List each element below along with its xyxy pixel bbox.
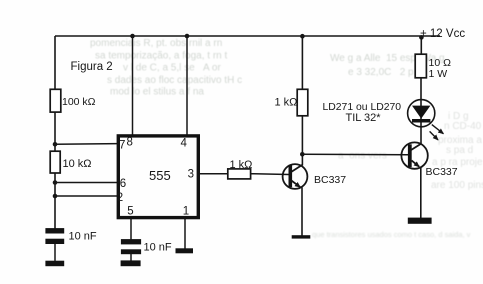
svg-text:are 100 pins: are 100 pins [431, 180, 483, 191]
LED emission arrow 2 [430, 131, 438, 140]
ground G5 Q2 emitter [408, 218, 432, 224]
svg-text:s dades ao floc capacitivo tH: s dades ao floc capacitivo tH c [107, 75, 242, 86]
svg-text:4: 4 [181, 138, 188, 150]
svg-text:10 nF: 10 nF [69, 230, 97, 242]
svg-text:n CD-40: n CD-40 [444, 121, 482, 132]
ground G1 left [45, 261, 64, 267]
svg-text:1 kΩ: 1 kΩ [275, 97, 298, 109]
resistor R5 10ohm [415, 54, 426, 78]
wire top +12V rail [55, 35, 440, 37]
svg-text:2: 2 [117, 192, 123, 204]
LED D1 [408, 100, 435, 127]
wire pin6 [55, 182, 118, 184]
svg-text:555: 555 [149, 168, 171, 183]
ground G4 Q1 emitter [292, 235, 311, 238]
wire pin1 down [184, 219, 186, 249]
node pin7 left rail [53, 142, 58, 147]
transistor Q2 BC337 [401, 142, 427, 168]
transistor Q1 BC337 [283, 164, 308, 189]
svg-text:10 kΩ: 10 kΩ [63, 158, 92, 170]
LED emission arrow 1 [432, 125, 444, 134]
wire left rail mid [54, 112, 56, 151]
svg-text:1 kΩ: 1 kΩ [230, 159, 253, 171]
svg-text:BC337: BC337 [314, 174, 346, 186]
wire 1k branch lower [301, 116, 303, 166]
node pin4 rail [185, 34, 190, 39]
wire Q2 emitter to ground [420, 167, 422, 219]
resistor R2 10k [50, 151, 60, 173]
svg-text:TIL 32*: TIL 32* [346, 112, 382, 124]
svg-text:sa temporização, a foga, t rn: sa temporização, a foga, t rn t [95, 51, 228, 62]
resistor R1 100k [50, 89, 61, 112]
node 1k branch rail [300, 34, 305, 39]
svg-text:3: 3 [188, 169, 194, 181]
node pin2 left rail [53, 194, 58, 199]
node Q1 collector [300, 152, 305, 157]
svg-text:1 W: 1 W [429, 68, 448, 80]
wire pin4 [186, 36, 188, 135]
resistor R3 1k vertical [297, 89, 308, 116]
svg-text:e 3 32,0C 2 p: e 3 32,0C 2 p [348, 67, 414, 78]
svg-text:7: 7 [119, 139, 125, 151]
svg-text:que transistores usados como t: que transistores usados como t caso, d s… [312, 230, 471, 239]
node Vcc branch rail [419, 35, 424, 40]
wire 1k branch upper [301, 36, 303, 89]
wire pin5 down [130, 219, 132, 239]
capacitor C3 10nF pin5 [121, 239, 141, 254]
svg-text:8: 8 [127, 137, 133, 149]
node pin8 rail [130, 34, 135, 39]
svg-text:mod lo el stilus a f na: mod lo el stilus a f na [110, 87, 204, 98]
ground G3 pin1 [176, 248, 194, 253]
svg-text:10 nF: 10 nF [144, 242, 172, 254]
IC U1 555 box [118, 136, 198, 218]
svg-text:pomenciais R, pt. obs rnil a r: pomenciais R, pt. obs rnil a rn [90, 38, 222, 49]
wire C3 to ground [130, 254, 132, 261]
wire Vcc to R5 [420, 36, 422, 54]
wire Q1 emitter to ground [301, 188, 303, 236]
wire pin2 [55, 195, 118, 197]
capacitor C2 10nF left [45, 228, 64, 244]
node pin6 left rail [53, 180, 58, 185]
svg-text:a ons vers: a ons vers [338, 151, 387, 162]
wire left rail upper [54, 36, 56, 90]
svg-text:BC337: BC337 [426, 166, 458, 178]
wire left rail lower [54, 173, 56, 229]
svg-text:s pa d: s pa d [446, 145, 473, 156]
ground G2 pin5 [121, 260, 141, 266]
wire R4 to Q1 base [251, 173, 289, 176]
wire pin3 to R4 [198, 173, 228, 175]
wire base link node to Q2 [302, 153, 408, 156]
wire R5 to LED and Q2 collector [420, 78, 422, 144]
wire pin8 [132, 36, 134, 135]
svg-text:v l de C, a 5,l se A or: v l de C, a 5,l se A or [123, 63, 221, 74]
wire pin7 [55, 143, 118, 146]
svg-text:+ 12 Vcc: + 12 Vcc [420, 28, 465, 40]
svg-text:6: 6 [120, 178, 126, 190]
svg-text:Figura 2: Figura 2 [71, 61, 113, 73]
svg-text:We g a Alle 15 espeWa g: We g a Alle 15 espeWa g [330, 53, 445, 64]
bleed-through background text [90, 38, 445, 98]
wire C2 to ground [54, 244, 56, 261]
svg-text:1: 1 [183, 206, 189, 218]
svg-text:100 kΩ: 100 kΩ [62, 96, 96, 108]
resistor R4 1k horizontal [228, 169, 251, 179]
svg-text:5: 5 [127, 206, 133, 218]
